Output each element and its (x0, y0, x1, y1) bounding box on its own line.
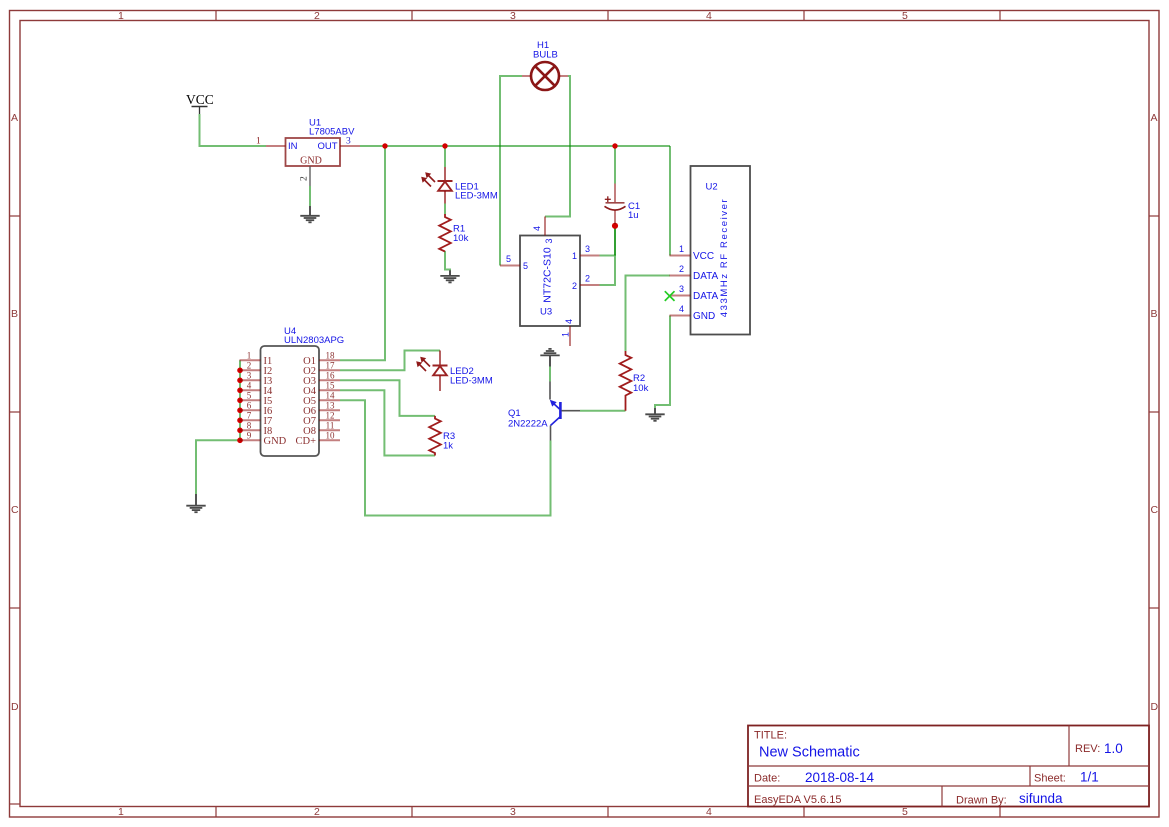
svg-text:433MHz RF Receiver: 433MHz RF Receiver (719, 198, 730, 318)
U4 pin 17 stub (319, 369, 340, 371)
U4 pin 11 stub (319, 429, 340, 431)
ground under U2 (645, 408, 664, 421)
junction dot C1 bottom (612, 223, 618, 229)
svg-text:C: C (1151, 504, 1159, 516)
svg-text:C: C (11, 504, 19, 516)
svg-text:9: 9 (247, 430, 252, 440)
LED1 top lead (444, 167, 446, 181)
SCHEMATIC (196, 76, 670, 516)
U4 pin 15 stub (319, 389, 340, 391)
wire U2 DATA to R2 (626, 276, 671, 352)
svg-text:5: 5 (506, 254, 511, 264)
left ruler tick bottom (10, 803, 21, 805)
ground above Q1 (540, 349, 559, 367)
svg-text:2: 2 (247, 360, 252, 370)
bottom ruler tick 4 (803, 807, 805, 818)
U2 pin 4 stub (670, 315, 691, 317)
svg-text:DATA: DATA (693, 271, 719, 282)
wire U4 O3 to R3 top (340, 380, 435, 416)
wire +5V rail (360, 145, 670, 147)
LED2 cathode bar (433, 365, 448, 367)
svg-text:13: 13 (326, 400, 336, 410)
svg-text:3: 3 (346, 137, 351, 147)
svg-text:D: D (11, 701, 19, 713)
svg-text:BULB: BULB (533, 50, 558, 61)
svg-text:12: 12 (326, 410, 335, 420)
svg-text:B: B (1151, 308, 1158, 320)
svg-text:IN: IN (288, 141, 298, 152)
svg-text:sifunda: sifunda (1019, 791, 1063, 806)
bottom ruler tick 2 (411, 807, 413, 818)
U3 pin 3 stub right (580, 255, 600, 257)
svg-text:Date:: Date: (754, 773, 780, 785)
wire U4 input bus (239, 360, 241, 440)
top ruler tick 4 (803, 11, 805, 21)
U4 pins (240, 360, 341, 440)
svg-text:A: A (1151, 112, 1158, 124)
svg-text:1: 1 (572, 251, 577, 261)
svg-text:14: 14 (326, 390, 336, 400)
title block row line 1 (748, 765, 1149, 767)
junction dot U4 pin6 (237, 408, 243, 414)
svg-text:3: 3 (679, 284, 684, 294)
svg-text:2: 2 (679, 264, 684, 274)
svg-text:17: 17 (326, 360, 336, 370)
svg-text:5: 5 (523, 261, 528, 271)
U2 pin 2 stub (670, 275, 691, 277)
wire U4 GND to ground (196, 440, 240, 494)
wire C1 to relay contacts dark (614, 226, 616, 256)
svg-text:NT72C-S10: NT72C-S10 (541, 247, 553, 303)
Q1 base bar (559, 402, 562, 419)
svg-text:4: 4 (564, 319, 574, 324)
svg-text:1: 1 (561, 332, 571, 337)
U3 pin 1 stub bottom (569, 326, 571, 346)
U4 pin 1 stub (240, 359, 261, 361)
U4 pin 14 stub (319, 399, 340, 401)
svg-text:U2: U2 (706, 182, 718, 193)
svg-text:CD+: CD+ (295, 436, 316, 447)
wire VCC to U1 pin1 (200, 114, 267, 146)
svg-text:5: 5 (247, 390, 252, 400)
U1 pin 2 stub (309, 166, 311, 186)
svg-text:1/1: 1/1 (1080, 770, 1099, 785)
svg-text:Q1: Q1 (508, 408, 521, 419)
C1 bottom lead (614, 211, 616, 225)
svg-text:4: 4 (706, 10, 712, 22)
svg-text:LED-3MM: LED-3MM (450, 376, 493, 387)
svg-text:8: 8 (247, 420, 252, 430)
U1 pin 1 stub (266, 145, 286, 147)
right ruler tick A/B (1149, 215, 1159, 217)
top ruler tick 5 (999, 11, 1001, 21)
C1 top lead (614, 184, 616, 203)
wire LED1 top (444, 146, 446, 167)
bottom ruler tick 1 (215, 807, 217, 818)
junction dot U4 pin3 (237, 378, 243, 384)
wire U4 O2 to LED2 (340, 351, 440, 371)
svg-text:REV:: REV: (1075, 743, 1100, 755)
wire rail to U2 VCC (669, 146, 671, 256)
net flag VCC (186, 92, 214, 114)
ground under U4 (186, 494, 205, 512)
wire bulb left leg (500, 76, 522, 266)
U2 pin 3 stub (670, 295, 691, 297)
wire LED1 to R1 (444, 204, 446, 215)
LED2 triangle (433, 366, 447, 375)
svg-text:18: 18 (326, 350, 336, 360)
wire U1 pin2 to ground (309, 186, 311, 206)
Q1 lower diagonal (551, 417, 561, 426)
ground under R1 (440, 270, 459, 282)
junction dot U4 pin5 (237, 398, 243, 404)
resistor R2 (620, 351, 649, 411)
svg-text:1: 1 (247, 350, 252, 360)
C1 bottom plate arc (605, 206, 626, 210)
junction dot U4 pin8 (237, 428, 243, 434)
svg-text:5: 5 (902, 10, 908, 22)
svg-text:3: 3 (544, 238, 554, 243)
junction dot rail-LED1 (442, 143, 447, 148)
right ruler tick C/D (1149, 607, 1159, 609)
svg-text:A: A (11, 112, 18, 124)
relay U3 (500, 217, 600, 347)
svg-text:3: 3 (510, 806, 516, 818)
svg-text:EasyEDA V5.6.15: EasyEDA V5.6.15 (754, 794, 841, 806)
svg-text:6: 6 (247, 400, 252, 410)
H1 left stub (522, 75, 531, 77)
U4 pin 10 stub (319, 439, 340, 441)
svg-text:1.0: 1.0 (1104, 741, 1123, 756)
svg-text:TITLE:: TITLE: (754, 730, 787, 742)
LED2 bottom lead (439, 376, 441, 392)
svg-text:2: 2 (314, 10, 320, 22)
svg-text:Sheet:: Sheet: (1034, 773, 1066, 785)
Q1 bottom stub (550, 426, 552, 441)
U4 pin 7 stub (240, 419, 261, 421)
wire R2 to Q1 base (580, 410, 626, 412)
svg-text:1u: 1u (628, 210, 639, 221)
TITLEBLOCK (748, 726, 1149, 807)
svg-text:1: 1 (118, 806, 124, 818)
title block Sheet separator (1029, 766, 1031, 786)
svg-text:VCC: VCC (693, 251, 714, 262)
svg-text:ULN2803APG: ULN2803APG (284, 335, 344, 346)
svg-text:2N2222A: 2N2222A (508, 419, 548, 430)
resistor R1 (439, 214, 468, 252)
svg-text:1: 1 (256, 137, 261, 147)
H1 right stub (559, 75, 568, 77)
svg-text:GND: GND (264, 436, 287, 447)
wire R1 to ground (445, 251, 450, 271)
wire rail to C1 (614, 146, 616, 184)
U4 pin 4 stub (240, 389, 261, 391)
LED1 bottom lead (444, 191, 446, 204)
C1 top plate (606, 202, 625, 204)
svg-text:10: 10 (326, 430, 336, 440)
LED1 (421, 167, 498, 204)
C1 plus sign (605, 196, 611, 202)
junction dot U4 pin9 (237, 438, 243, 444)
svg-text:16: 16 (326, 370, 336, 380)
left ruler tick A/B (10, 215, 21, 217)
wire bulb right leg to relay pin4 (545, 76, 570, 217)
U4 pin 16 stub (319, 379, 340, 381)
resistor R3 (429, 416, 455, 456)
receiver U2 (665, 166, 750, 335)
LED1 emission arrows (421, 172, 435, 186)
svg-text:1: 1 (679, 244, 684, 254)
svg-text:OUT: OUT (317, 141, 337, 152)
U4 pin 6 stub (240, 409, 261, 411)
wire Q1 emitter to ground (549, 367, 551, 382)
ground under U1 (300, 206, 319, 222)
svg-text:LED-3MM: LED-3MM (455, 191, 498, 202)
LED1 triangle (438, 182, 452, 191)
svg-text:5: 5 (902, 806, 908, 818)
LED2 top lead (439, 351, 441, 366)
svg-text:2: 2 (572, 281, 577, 291)
U4 pin 3 stub (240, 379, 261, 381)
left ruler tick B/C (10, 411, 21, 413)
junction dot U4 pin2 (237, 368, 243, 374)
svg-text:15: 15 (326, 380, 336, 390)
wire U4 O1 to rail riser (340, 146, 385, 360)
svg-text:10k: 10k (453, 233, 469, 244)
U3 pin 5 stub left (500, 265, 520, 267)
U4 pin 13 stub (319, 409, 340, 411)
regulator U1 (256, 118, 360, 187)
U4 pin 12 stub (319, 419, 340, 421)
LED2 (416, 351, 493, 392)
U1 pin 3 stub (340, 145, 360, 147)
wire relay pin3 branch (600, 256, 616, 286)
U3 pin 2 stub right (580, 284, 600, 286)
U4 pin 9 stub (240, 439, 261, 441)
svg-text:3: 3 (510, 10, 516, 22)
Q1 emitter diagonal with arrow (553, 403, 560, 410)
svg-text:U3: U3 (540, 307, 552, 318)
svg-text:2: 2 (300, 176, 310, 181)
junction dot U4 pin7 (237, 418, 243, 424)
bulb H1 (522, 40, 568, 90)
title block REV separator (1068, 726, 1070, 767)
title block DrawnBy separator (941, 786, 943, 807)
U3 pin 4 stub top (544, 217, 546, 236)
wire Q1 collector to U4 O5 (340, 400, 551, 515)
svg-text:2018-08-14: 2018-08-14 (805, 770, 875, 785)
top ruler tick 2 (411, 11, 413, 21)
svg-text:4: 4 (706, 806, 712, 818)
Q1 collector stub (top) (549, 382, 551, 400)
right ruler tick B/C (1149, 411, 1159, 413)
top ruler tick 1 (215, 11, 217, 21)
U4 pin 8 stub (240, 429, 261, 431)
svg-text:2: 2 (585, 274, 590, 284)
LED2 emission arrows (416, 357, 430, 371)
left ruler tick C/D (10, 607, 21, 609)
svg-text:3: 3 (585, 244, 590, 254)
svg-text:10k: 10k (633, 383, 649, 394)
svg-text:1: 1 (118, 10, 124, 22)
junction dot rail-C1 (612, 143, 617, 148)
svg-text:4: 4 (679, 304, 684, 314)
Q1 base stub (562, 410, 581, 412)
svg-text:7: 7 (247, 410, 252, 420)
wire U4 O4 to R3 bottom (340, 390, 435, 455)
wire U2 GND to ground (655, 316, 670, 409)
svg-text:2: 2 (314, 806, 320, 818)
svg-text:Drawn By:: Drawn By: (956, 795, 1007, 807)
top ruler tick 3 (607, 11, 609, 21)
svg-text:1k: 1k (443, 441, 453, 452)
svg-text:B: B (11, 308, 18, 320)
svg-text:DATA: DATA (693, 291, 719, 302)
bottom ruler tick 3 (607, 807, 609, 818)
svg-text:New Schematic: New Schematic (759, 745, 860, 761)
svg-text:4: 4 (247, 380, 252, 390)
driver U4 (261, 326, 345, 456)
svg-text:L7805ABV: L7805ABV (309, 127, 355, 138)
U2 no-connect X (665, 291, 675, 301)
svg-text:3: 3 (247, 370, 252, 380)
title block row line 2 (748, 785, 1149, 787)
U4 pin 5 stub (240, 399, 261, 401)
junction dot rail-O1 riser (382, 143, 387, 148)
svg-text:11: 11 (326, 420, 335, 430)
svg-text:4: 4 (532, 226, 542, 231)
transistor Q1 (508, 382, 580, 441)
svg-text:GND: GND (300, 156, 322, 167)
svg-text:D: D (1151, 701, 1159, 713)
capacitor C1 (605, 184, 641, 225)
title block outline (748, 726, 1149, 807)
LED1 cathode bar (438, 180, 453, 182)
U2 pin 1 stub (670, 255, 691, 257)
U4 pin 18 stub (319, 359, 340, 361)
svg-text:GND: GND (693, 311, 715, 322)
junction dot U4 pin4 (237, 388, 243, 394)
svg-text:VCC: VCC (186, 92, 214, 107)
bottom ruler tick 5 (999, 807, 1001, 818)
U4 pin 2 stub (240, 369, 261, 371)
